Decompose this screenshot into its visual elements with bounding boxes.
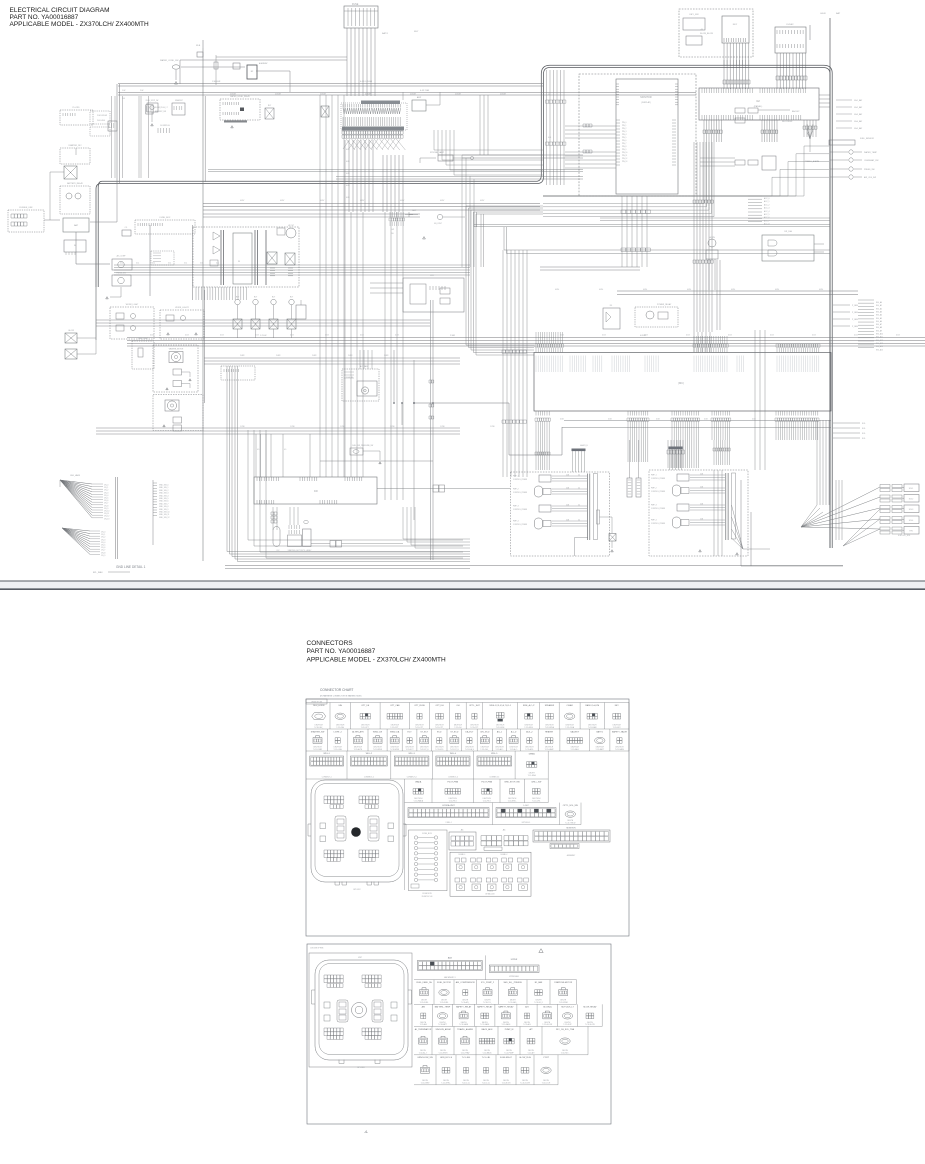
connector stack lower cells	[342, 131, 403, 134]
solenoid cluster center	[221, 366, 255, 380]
svg-text:0.85: 0.85	[346, 185, 350, 187]
svg-text:BRK_STOP_SW: BRK_STOP_SW	[505, 781, 520, 783]
vertical bundle left of ecu	[503, 250, 527, 477]
svg-text:FUEL_STOP_LW: FUEL_STOP_LW	[146, 100, 159, 102]
svg-text:SOL1: SOL1	[909, 488, 914, 490]
monitor to left harness wires	[462, 155, 583, 158]
gnd line detail fan 2	[62, 528, 90, 554]
svg-text:4-ASSY_B: 4-ASSY_B	[580, 444, 588, 447]
dashed box far left upper	[60, 110, 93, 125]
svg-text:1.25B: 1.25B	[490, 426, 495, 428]
svg-text:2-WR: 2-WR	[276, 355, 281, 357]
chart1 pilot group box	[450, 852, 531, 896]
svg-text:PIN_6: PIN_6	[622, 140, 627, 142]
svg-text:SIG_A0: SIG_A0	[876, 301, 882, 304]
icf bottom right wires	[403, 507, 470, 539]
svg-text:0.5G: 0.5G	[220, 334, 224, 336]
monitor assembly dashed box	[579, 74, 696, 196]
svg-text:0.5G: 0.5G	[854, 334, 858, 336]
right pin list stubs mid	[858, 300, 874, 347]
svg-text:GND_SIG_9: GND_SIG_9	[159, 509, 169, 511]
svg-text:SAFETY_RELAY: SAFETY_RELAY	[498, 1006, 514, 1009]
svg-text:MACHINERY-1: MACHINERY-1	[444, 976, 456, 979]
svg-text:OPT_CAB: OPT_CAB	[390, 704, 400, 707]
svg-text:WDL-4: WDL-4	[450, 753, 457, 755]
bottom line y461	[320, 460, 433, 462]
svg-text:2-B 0.85G: 2-B 0.85G	[97, 120, 106, 122]
svg-text:ALTER_ATR: ALTER_ATR	[352, 730, 364, 733]
svg-text:-4-: -4-	[364, 1130, 368, 1134]
svg-text:T-CD-FUEL: T-CD-FUEL	[440, 1002, 449, 1004]
wiper controller inner box	[233, 233, 252, 284]
svg-text:PIN_2: PIN_2	[622, 128, 627, 130]
svg-text:FUSE_BOX: FUSE_BOX	[160, 217, 171, 219]
svg-text:2-WR: 2-WR	[450, 335, 456, 337]
svg-text:GLOW_RL/H: GLOW_RL/H	[519, 1057, 531, 1059]
svg-text:0.85Y: 0.85Y	[280, 200, 285, 202]
svg-text:KEY_SW: KEY_SW	[689, 14, 699, 16]
svg-text:CAB_LIGHT: CAB_LIGHT	[138, 337, 149, 340]
wires below controller	[196, 287, 246, 300]
svg-text:0.85Y: 0.85Y	[320, 200, 325, 202]
svg-text:0.5B: 0.5B	[700, 474, 703, 476]
svg-text:FUEL_SENSOR: FUEL_SENSOR	[860, 138, 875, 140]
wires below C2 left group	[704, 120, 722, 142]
svg-text:T-CD-CIGA: T-CD-CIGA	[565, 726, 574, 729]
svg-text:UPPER-BHD: UPPER-BHD	[509, 976, 520, 978]
svg-text:STARTER_RLY: STARTER_RLY	[68, 144, 82, 147]
vertical wires under connector stack	[345, 140, 373, 212]
svg-text:CONTROL_PRESS: CONTROL_PRESS	[513, 524, 527, 526]
svg-text:0.5G: 0.5G	[360, 334, 364, 336]
svg-text:0.5L: 0.5L	[216, 263, 219, 265]
bottom center connector pairs	[627, 478, 632, 497]
svg-text:START/GN-MOTOR: START/GN-MOTOR	[554, 981, 573, 984]
svg-text:PART NO. YA00016887: PART NO. YA00016887	[10, 14, 79, 21]
svg-text:T-CD-CHL_: T-CD-CHL_	[480, 749, 489, 751]
svg-text:0.85GR: 0.85GR	[230, 94, 237, 96]
svg-text:FUSE ROW: FUSE ROW	[422, 893, 432, 895]
controller op amps	[213, 232, 220, 240]
svg-text:2-WR: 2-WR	[348, 355, 353, 357]
svg-text:HYDRA-UNIT: HYDRA-UNIT	[442, 804, 455, 807]
svg-text:SIG_A13: SIG_A13	[876, 342, 883, 345]
ground tri center	[423, 237, 426, 239]
svg-text:0.5L: 0.5L	[200, 263, 203, 265]
svg-text:BAT/1: BAT/1	[382, 32, 389, 35]
svg-text:UNIT: UNIT	[358, 957, 362, 959]
svg-text:T-CD-SAFE: T-CD-SAFE	[615, 748, 625, 751]
svg-text:ACC_8: ACC_8	[764, 223, 770, 226]
L-routes from C2 left group to mid bus	[543, 142, 704, 204]
misc long verticals right center	[755, 330, 765, 470]
svg-text:GND_SIG_0: GND_SIG_0	[159, 485, 169, 487]
relay box left mid	[265, 108, 274, 119]
svg-text:CT-RT: CT-RT	[543, 1057, 550, 1059]
svg-text:0.85GR: 0.85GR	[455, 94, 462, 96]
svg-text:1.25-W: 1.25-W	[260, 335, 267, 337]
d1 bus bar	[588, 474, 590, 541]
svg-text:SHD_SH__PRESSU: SHD_SH__PRESSU	[503, 982, 522, 984]
svg-text:CHL_ECD: CHL_ECD	[480, 731, 490, 733]
right sensor rows lower	[833, 304, 850, 306]
svg-text:GND_SIG_7: GND_SIG_7	[159, 503, 169, 505]
svg-text:T-CD-ST_E: T-CD-ST_E	[450, 749, 460, 751]
diode component mid	[603, 308, 620, 329]
svg-text:PMP_2: PMP_2	[651, 488, 657, 490]
nested L-routes center bus down	[466, 206, 543, 345]
svg-text:POWER_RELAY: POWER_RELAY	[657, 303, 672, 306]
svg-text:PIN_0: PIN_0	[622, 122, 627, 124]
below ecu long bus lines	[564, 420, 831, 422]
fan 2 bottom right	[843, 509, 880, 546]
svg-text:SIG_A11: SIG_A11	[876, 336, 883, 339]
monitor unit box	[616, 79, 678, 194]
svg-text:0.5G: 0.5G	[290, 334, 294, 336]
svg-text:BAT: BAT	[836, 12, 841, 15]
svg-text:AL_TERMINATOR: AL_TERMINATOR	[415, 1028, 432, 1031]
bundle right of harness corner down	[547, 70, 565, 185]
svg-text:ICF: ICF	[314, 489, 319, 493]
svg-text:STROBE_LAMP: STROBE_LAMP	[430, 151, 445, 154]
svg-text:RLY: RLY	[272, 297, 276, 299]
svg-text:OPT_FUSE: OPT_FUSE	[414, 705, 425, 707]
svg-text:0.5G: 0.5G	[770, 334, 774, 336]
svg-text:A&B: A&B	[448, 957, 453, 960]
wire battery to starter	[76, 232, 110, 264]
svg-text:SIG_A4: SIG_A4	[876, 314, 882, 317]
svg-text:0.5B: 0.5B	[560, 419, 564, 421]
svg-text:EXT-DBL-1: EXT-DBL-1	[522, 822, 531, 824]
svg-text:WADA: WADA	[415, 780, 422, 783]
svg-text:1.25B: 1.25B	[290, 426, 295, 428]
svg-text:T-CD-BACK: T-CD-BACK	[482, 1052, 492, 1055]
svg-text:C/L: C/L	[125, 227, 128, 229]
svg-text:WDL-1: WDL-1	[324, 753, 331, 755]
svg-text:SW/GLW_ASSM: SW/GLW_ASSM	[436, 1028, 451, 1031]
svg-text:ICX: ICX	[430, 275, 434, 277]
svg-text:0.5B: 0.5B	[700, 504, 703, 506]
svg-text:SIDE_A,C,-P: SIDE_A,C,-P	[523, 704, 535, 707]
svg-text:0.5: 0.5	[284, 449, 286, 451]
svg-text:0.85GR: 0.85GR	[500, 94, 507, 96]
svg-text:1-W 4GR: 1-W 4GR	[212, 81, 221, 83]
d1 bar exit wire	[574, 538, 588, 556]
alarm logic box right	[762, 235, 814, 261]
svg-text:T-CD-FUEL: T-CD-FUEL	[420, 1002, 429, 1004]
glow plug relay boxes left	[65, 333, 77, 343]
svg-text:A/T: A/T	[529, 1028, 533, 1031]
lamp dashed box left 1	[110, 307, 154, 339]
svg-text:SLOW_RELAY: SLOW_RELAY	[583, 1006, 597, 1009]
svg-text:T-CD-SW/G: T-CD-SW/G	[439, 1053, 449, 1055]
svg-text:DA_ECT: DA_ECT	[466, 730, 475, 733]
svg-text:BP-XNH: BP-XNH	[357, 1067, 365, 1069]
fuse box 2 top right	[775, 27, 806, 53]
svg-text:PUMP_M: PUMP_M	[505, 1029, 514, 1031]
svg-text:4-SPOOL_SOL: 4-SPOOL_SOL	[898, 535, 910, 537]
svg-text:PMP_1: PMP_1	[651, 475, 657, 477]
svg-text:0.85GR: 0.85GR	[365, 94, 372, 96]
svg-text:T-CD-AL_T: T-CD-AL_T	[419, 1052, 428, 1055]
svg-text:ASSEMBLY: ASSEMBLY	[567, 854, 576, 857]
gnd list right stubs	[153, 483, 157, 515]
wiper motor dashed box	[153, 345, 198, 392]
top mid bundle between stack and harness	[480, 95, 488, 155]
svg-text:(MC): (MC)	[678, 381, 684, 385]
svg-text:DETAIL-XXX: DETAIL-XXX	[485, 892, 495, 895]
svg-text:SOL4: SOL4	[909, 520, 914, 522]
chart1 fuse list cell	[409, 830, 448, 891]
svg-text:HORN: HORN	[709, 237, 715, 239]
fuse box outline in chart 1	[311, 780, 403, 882]
zigzag coil rows in connector stack	[343, 108, 372, 114]
svg-text:0.85Y: 0.85Y	[480, 200, 485, 202]
svg-text:DETAIL-2: DETAIL-2	[501, 853, 508, 856]
wiper controller dashed box left-center	[193, 227, 299, 287]
svg-text:0.85: 0.85	[346, 173, 350, 175]
mid horizontal bus 203-217	[203, 204, 540, 211]
svg-text:P_SEN: P_SEN	[852, 326, 859, 328]
relay xbox right of dashed	[321, 106, 329, 117]
svg-text:OVERHEAT_SW: OVERHEAT_SW	[864, 159, 879, 162]
svg-text:T-CD-SLOW: T-CD-SLOW	[585, 1024, 595, 1026]
wires icx left	[370, 283, 403, 293]
svg-text:SAFETY_RELAY: SAFETY_RELAY	[456, 1006, 472, 1009]
svg-text:ALARM/BZ: ALARM/BZ	[259, 62, 267, 65]
svg-text:A/G: A/G	[525, 1006, 529, 1009]
svg-text:WORK_LIGHT2: WORK_LIGHT2	[175, 307, 189, 309]
svg-text:0.85GR: 0.85GR	[275, 94, 282, 96]
svg-text:SIG_A10: SIG_A10	[876, 333, 883, 336]
bottom bundle combs center right	[668, 440, 683, 468]
svg-text:PART NO. YA00016887: PART NO. YA00016887	[307, 648, 376, 655]
pump fuse box outline in chart 2	[315, 960, 408, 1060]
wires C2 to right bus	[819, 95, 830, 107]
svg-text:T-CD-DEU_: T-CD-DEU_	[314, 727, 323, 729]
svg-text:CONTROL_PRESS: CONTROL_PRESS	[513, 492, 527, 494]
vertical line x150	[149, 225, 151, 296]
svg-text:MONITOR: MONITOR	[567, 828, 577, 830]
svg-text:T-CD-OPT_: T-CD-OPT_	[435, 727, 444, 729]
fusible link dashed box far left	[8, 210, 44, 232]
svg-text:CONTROL_PRESS: CONTROL_PRESS	[513, 479, 527, 481]
svg-text:(IN HARNESS CONNECTOR IS MARK: (IN HARNESS CONNECTOR IS MARKED SIDE)	[320, 695, 362, 698]
fuse box corner clusters	[324, 796, 344, 800]
svg-text:OH: OH	[456, 705, 460, 707]
fuse box side tabs	[308, 824, 406, 836]
bottom long bus lines	[225, 565, 843, 567]
svg-text:ACC_5: ACC_5	[764, 213, 770, 216]
svg-text:GND_SIG_5: GND_SIG_5	[159, 498, 169, 500]
vertical wires near x400	[393, 350, 395, 403]
svg-text:RLY: RLY	[254, 297, 258, 299]
wires right edge sensors lower	[833, 422, 860, 424]
svg-text:SIG_A3: SIG_A3	[876, 310, 882, 313]
svg-text:0.5B: 0.5B	[700, 487, 703, 489]
svg-text:T-CD-HEAT: T-CD-HEAT	[545, 748, 554, 751]
svg-text:PIN_4: PIN_4	[622, 134, 627, 136]
svg-text:SIG_A7: SIG_A7	[876, 323, 882, 326]
svg-text:0.85: 0.85	[346, 149, 350, 151]
key switch unit box	[722, 16, 749, 43]
svg-text:T-CD-WIND: T-CD-WIND	[390, 749, 400, 751]
svg-text:A,C-D: A,C-D	[511, 730, 517, 733]
svg-text:P_SEN: P_SEN	[852, 305, 859, 307]
svg-text:PIN_5: PIN_5	[622, 137, 627, 139]
junction dots on bus y403	[393, 402, 395, 404]
svg-text:ACC_7: ACC_7	[764, 219, 770, 222]
svg-text:1.25B: 1.25B	[440, 426, 445, 428]
svg-text:RLY: RLY	[268, 105, 272, 107]
svg-text:PMP_2: PMP_2	[513, 489, 519, 491]
fuse box bottom bumps	[335, 882, 379, 886]
svg-text:4-W 0.85GR: 4-W 0.85GR	[360, 81, 373, 83]
small box far left 230	[122, 230, 131, 236]
svg-text:T-CL-LBL: T-CL-LBL	[482, 1057, 491, 1059]
svg-text:AC/L-2: AC/L-2	[526, 730, 533, 733]
svg-text:BRACKET_SW: BRACKET_SW	[155, 110, 166, 113]
connector chart box 1 outline	[306, 699, 629, 936]
svg-text:CN_9: CN_9	[101, 555, 105, 557]
svg-text:T-CD-SPEA: T-CD-SPEA	[545, 726, 555, 729]
svg-text:APPLICABLE MODEL - ZX370LCH/ Z: APPLICABLE MODEL - ZX370LCH/ ZX400MTH	[307, 656, 447, 663]
chart1 row 1 cells	[306, 702, 629, 704]
svg-text:L-S-2: L-S-2	[524, 805, 530, 807]
center-left nested routing verticals	[320, 95, 344, 477]
origin of line label box	[306, 699, 327, 704]
svg-text:T-CD-SIDE: T-CD-SIDE	[496, 727, 505, 729]
svg-text:STARTING_MOTOR: STARTING_MOTOR	[288, 549, 304, 552]
svg-text:2-WR: 2-WR	[384, 355, 389, 357]
ac fan motor dashed box	[342, 369, 379, 401]
svg-text:OPT.L_SHT: OPT.L_SHT	[469, 705, 480, 707]
svg-text:T-CL-MDA: T-CL-MDA	[528, 774, 537, 777]
svg-text:KEY: KEY	[414, 31, 419, 33]
svg-text:WATER_COND_SW: WATER_COND_SW	[160, 59, 178, 62]
fuse box center dot	[351, 827, 361, 837]
svg-text:0.85L: 0.85L	[775, 289, 779, 291]
svg-text:C2: C2	[756, 99, 760, 103]
svg-text:1-W: 1-W	[122, 90, 126, 92]
svg-text:T-CD-SAFE: T-CD-SAFE	[480, 1023, 490, 1026]
svg-text:B1_FAN: B1_FAN	[535, 981, 543, 984]
svg-text:0.5G: 0.5G	[728, 334, 732, 336]
pump fuse box bottom bumps	[339, 1060, 380, 1064]
wires lamps to bus	[96, 320, 430, 326]
svg-text:KEY: KEY	[615, 705, 620, 707]
svg-text:APPLICABLE MODEL - ZX370LCH/ Z: APPLICABLE MODEL - ZX370LCH/ ZX400MTH	[10, 21, 150, 28]
svg-text:WDL-2: WDL-2	[366, 753, 373, 755]
right long bus lines 291-295	[617, 291, 858, 295]
svg-text:MONITOR: MONITOR	[640, 96, 652, 99]
ecu pin stubs below bottom edge	[536, 411, 549, 416]
svg-text:T-CD-SIDE: T-CD-SIDE	[524, 727, 533, 729]
svg-text:CHILL_SW_PRESSURE_SW: CHILL_SW_PRESSURE_SW	[352, 445, 374, 447]
svg-text:P_SEN: P_SEN	[852, 319, 859, 321]
svg-text:FUEL_MOTOR: FUEL_MOTOR	[437, 982, 451, 984]
pump fuse box side tabs	[312, 990, 412, 1004]
gn cont circle	[437, 214, 442, 219]
svg-text:T-CD-B1_F: T-CD-B1_F	[534, 1002, 543, 1004]
svg-text:T-CD-ST_E: T-CD-ST_E	[420, 749, 430, 751]
pump fuse box center ring	[352, 1003, 367, 1018]
svg-text:(PANEL): (PANEL)	[754, 105, 763, 108]
svg-text:WASHER_MOTOR: WASHER_MOTOR	[169, 348, 184, 351]
bus pair y225 to right	[474, 225, 830, 227]
bundle below C2 right converge	[807, 124, 810, 139]
svg-text:T-CD-GRN_: T-CD-GRN_	[441, 1083, 450, 1085]
svg-text:SOL: SOL	[862, 438, 866, 440]
rounded harness bus double line	[96, 68, 830, 549]
strobe lamp small box	[438, 155, 453, 161]
svg-text:T-CD-OPT.: T-CD-OPT.	[470, 727, 479, 729]
fan to solenoid valves	[801, 487, 880, 529]
right margin small label rows top	[836, 99, 852, 101]
ecu pin stubs above top edge	[536, 348, 562, 353]
radio boxes left	[135, 220, 195, 234]
svg-text:UPPER: UPPER	[511, 959, 518, 961]
L wire under ecu left	[414, 403, 562, 455]
svg-text:SIG_A15: SIG_A15	[876, 348, 883, 351]
svg-text:0.5G: 0.5G	[255, 334, 259, 336]
wires below C2 right group	[804, 120, 816, 137]
svg-text:PL-CRD: PL-CRD	[72, 107, 80, 109]
svg-text:SLOW_PLUG_LT: SLOW_PLUG_LT	[155, 107, 168, 109]
svg-text:SIG_A14: SIG_A14	[876, 345, 883, 348]
svg-text:0.85GR: 0.85GR	[410, 94, 417, 96]
svg-text:(DISPLAY): (DISPLAY)	[641, 101, 651, 104]
slow plug comb	[158, 128, 169, 133]
svg-text:GN-1_BAT: GN-1_BAT	[854, 99, 862, 102]
svg-text:T-CD-PILO: T-CD-PILO	[449, 800, 458, 802]
svg-text:0.5G: 0.5G	[686, 334, 690, 336]
mid main bus 337-346	[127, 338, 925, 347]
svg-text:1-B: 1-B	[122, 98, 126, 100]
svg-text:AIR_CLN_SW: AIR_CLN_SW	[864, 176, 876, 179]
svg-text:T-CD-SHD_: T-CD-SHD_	[508, 1002, 517, 1004]
svg-text:T-CD-24H: T-CD-24H	[336, 727, 344, 729]
svg-text:T-CD-BRK_: T-CD-BRK_	[508, 800, 517, 802]
svg-text:T-CD-GRN/: T-CD-GRN/	[421, 1083, 430, 1085]
ecu main box MC	[534, 353, 831, 412]
pressure sensor dashed box 2	[649, 470, 748, 556]
L-routes center stack to harness	[434, 130, 543, 150]
svg-text:GN-4_BAT: GN-4_BAT	[854, 120, 862, 123]
svg-text:PMP_4: PMP_4	[513, 521, 519, 523]
box2 grid row 1	[414, 979, 577, 981]
svg-text:0.5G: 0.5G	[812, 334, 816, 336]
L-routes left of monitor down	[461, 155, 463, 267]
svg-text:A/B: A/B	[422, 1006, 426, 1009]
monitor bottom wires	[622, 196, 647, 267]
svg-text:GND_HARN: GND_HARN	[70, 474, 81, 477]
box2 machinery bar cell	[413, 955, 415, 979]
svg-text:FUSE: FUSE	[352, 3, 359, 6]
controller pin rows right	[270, 268, 275, 276]
svg-text:GN_CONT: GN_CONT	[434, 223, 442, 225]
small boxes above main bus	[197, 52, 203, 57]
svg-text:KEY: KEY	[733, 24, 738, 26]
svg-text:D1: D1	[610, 305, 613, 307]
svg-text:OPT_DE: OPT_DE	[361, 705, 370, 707]
svg-text:1.25B: 1.25B	[390, 426, 395, 428]
svg-text:0.5L: 0.5L	[168, 263, 171, 265]
svg-text:0.5B: 0.5B	[566, 475, 569, 477]
svg-text:T-CD-BATT: T-CD-BATT	[595, 748, 604, 751]
svg-text:GRN/GLOW_SW: GRN/GLOW_SW	[417, 1057, 433, 1059]
gnd line detail fan 1	[60, 480, 92, 518]
